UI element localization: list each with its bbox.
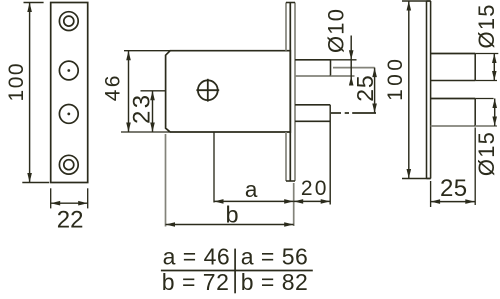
- dim a: left extension line: [213, 132, 215, 203]
- dim 100 left: top extension tick: [24, 2, 44, 4]
- keep plate bottom cap: [427, 178, 431, 180]
- dim o10: dimension line: [350, 36, 352, 86]
- dim 100 right: bottom arrow: [407, 169, 412, 179]
- follower crosshair horizontal: [196, 89, 219, 91]
- top barrel end face: [474, 54, 476, 81]
- dim 46: dimension line: [128, 51, 130, 132]
- dim 100 right: bottom extension tick: [402, 178, 431, 180]
- svg-text:Ø15: Ø15: [474, 131, 499, 176]
- dim 22: right extension line: [87, 188, 89, 208]
- dim b: left extension line: [165, 134, 167, 227]
- svg-text:a: a: [245, 177, 258, 202]
- dim O15 top: dimension line: [493, 54, 495, 81]
- svg-text:Ø15: Ø15: [474, 3, 499, 48]
- table vertical divider: [234, 249, 236, 294]
- dim 100 left: top arrow: [27, 3, 32, 13]
- table horizontal rule: [161, 270, 313, 272]
- svg-text:a = 56: a = 56: [241, 244, 309, 270]
- dim b: left arrow: [166, 222, 176, 227]
- svg-text:100: 100: [5, 62, 28, 102]
- dim o10: upper arrow (points down): [349, 50, 354, 60]
- bottom pin bottom edge: [295, 120, 330, 122]
- dim 20: right arrow: [321, 199, 331, 204]
- dim o10: bottom extension line: [331, 75, 355, 77]
- dim 25 right: dimension line: [431, 201, 475, 203]
- dim 25: top pin centre extension line: [333, 67, 375, 69]
- dim o10: lower arrow (points up): [349, 76, 354, 86]
- pin hole lower centre dot: [67, 113, 70, 116]
- dim 20: left arrow: [294, 199, 304, 204]
- bottom pin centreline dash 3: [352, 112, 376, 114]
- keep plate right edge: [430, 1, 432, 179]
- pin hole upper: [59, 61, 78, 80]
- pin hole lower: [59, 105, 78, 124]
- dim O15 bottom: dimension line: [494, 99, 496, 127]
- bottom pin end face + dim 20 right extension: [329, 105, 331, 205]
- dim O15 top: lower extension: [475, 80, 497, 82]
- dim 46: bottom arrow: [126, 123, 131, 133]
- top pin end face: [330, 60, 332, 76]
- dim 22: left extension line: [50, 188, 52, 208]
- dim 25: top arrow: [372, 68, 377, 78]
- dim 25 right: left extension line: [430, 181, 432, 207]
- screw hole top outer: [59, 12, 78, 31]
- dim b: right arrow: [284, 222, 294, 227]
- dim 25 right: left arrow: [431, 199, 441, 204]
- dim a: dimension line: [214, 200, 294, 202]
- dim 46/23: bottom extension line: [121, 131, 170, 133]
- bottom barrel bottom edge: [431, 125, 476, 127]
- faceplate front view outline: [51, 3, 88, 183]
- svg-text:46: 46: [102, 73, 125, 101]
- dim 23: top extension tick: [141, 90, 166, 92]
- dim 46: top arrow: [126, 51, 131, 61]
- dim 22: dimension line: [51, 202, 88, 204]
- screw hole top inner: [64, 16, 74, 26]
- screw hole bottom inner: [64, 160, 74, 170]
- bottom pin centreline dash 2: [345, 112, 349, 114]
- dim 100 right: top extension tick: [402, 0, 431, 2]
- bottom barrel top edge: [431, 98, 476, 100]
- lock case side view outline (chamfered left corners): [166, 51, 291, 132]
- dim O15 top: up arrow: [492, 54, 497, 64]
- dim 100 left: dimension line: [29, 3, 31, 183]
- dim 46: top extension line: [124, 50, 170, 52]
- bottom pin top edge: [295, 104, 330, 106]
- dim b: dimension line: [166, 224, 294, 226]
- dim 20: dimension line: [294, 200, 331, 202]
- dim 25: dimension line: [374, 68, 376, 113]
- svg-text:Ø10: Ø10: [324, 8, 349, 53]
- top barrel bottom edge: [431, 80, 476, 82]
- dim 100 left: bottom arrow: [27, 173, 32, 183]
- follower crosshair vertical: [207, 79, 209, 102]
- svg-text:a = 46: a = 46: [163, 244, 231, 270]
- dim a: right arrow: [284, 199, 294, 204]
- follower crosshair circle: [198, 80, 218, 100]
- dim 22: left arrow: [51, 201, 61, 206]
- dim 23: bottom arrow: [150, 123, 155, 133]
- dim 100 right: dimension line: [408, 1, 410, 179]
- dim 23: dimension line: [152, 91, 154, 132]
- dim O15 top: upper extension: [475, 53, 498, 55]
- top pin top edge: [295, 59, 331, 61]
- screw hole bottom outer: [59, 155, 78, 174]
- faceplate top cap: [286, 2, 295, 4]
- svg-text:20: 20: [301, 177, 329, 200]
- bottom pin centreline dash 1: [331, 112, 341, 114]
- dim 22: right arrow: [78, 201, 88, 206]
- dim a/20/b: faceplate extension line: [293, 183, 295, 226]
- dim a: left arrow: [214, 199, 224, 204]
- faceplate left edge below case: [285, 132, 287, 181]
- svg-text:23: 23: [128, 93, 155, 124]
- svg-text:100: 100: [384, 56, 407, 101]
- dim 25 right: right arrow: [465, 199, 475, 204]
- svg-text:b = 82: b = 82: [241, 269, 309, 295]
- dim 25: bottom arrow: [372, 104, 377, 114]
- dim O15 bottom: up arrow: [492, 99, 497, 109]
- dim O15 bottom: upper extension: [475, 98, 493, 100]
- faceplate middle line / case right edge: [289, 3, 291, 182]
- keep plate top cap: [427, 0, 431, 2]
- svg-text:b = 72: b = 72: [162, 269, 230, 295]
- dim o10: top extension line: [331, 59, 357, 61]
- pin hole upper centre dot: [67, 69, 70, 72]
- top barrel top edge: [431, 53, 476, 55]
- faceplate bottom cap: [286, 180, 295, 182]
- dim O15 bottom: lower extension: [475, 125, 497, 127]
- svg-text:25: 25: [440, 175, 468, 202]
- dim 25 right: right extension line: [474, 128, 476, 206]
- keep plate left edge: [426, 1, 428, 179]
- svg-text:22: 22: [57, 206, 84, 233]
- faceplate left edge above case: [285, 3, 287, 51]
- dim 100 left: bottom extension tick: [22, 182, 49, 184]
- bottom barrel end face: [474, 99, 476, 127]
- dim O15 bottom: down arrow: [492, 117, 497, 127]
- dim 100 right: top arrow: [407, 1, 412, 11]
- faceplate right edge: [294, 3, 296, 182]
- dim 23: top arrow: [150, 91, 155, 101]
- svg-text:25: 25: [352, 75, 378, 102]
- dim O15 top: down arrow: [492, 71, 497, 81]
- top pin bottom edge: [295, 75, 331, 77]
- svg-text:b: b: [226, 201, 239, 227]
